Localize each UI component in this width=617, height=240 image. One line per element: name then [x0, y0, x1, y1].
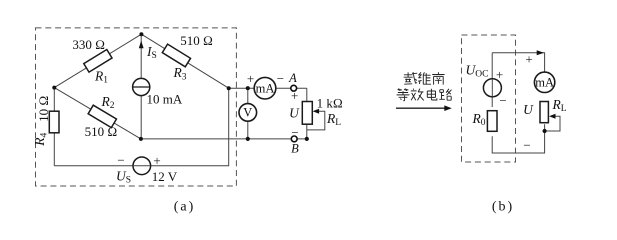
glyph deng: [397, 89, 410, 101]
node RL wiper junction (b): [543, 129, 547, 133]
svg-text:−: −: [117, 153, 124, 168]
svg-text:+: +: [496, 67, 503, 82]
glyph lu: [439, 89, 451, 100]
svg-text:10 mA: 10 mA: [147, 92, 183, 107]
wire R to A rail: [229, 87, 307, 89]
node J2: [246, 137, 250, 141]
svg-text:V: V: [243, 106, 252, 120]
svg-text:1 kΩ: 1 kΩ: [317, 96, 343, 111]
resistor R0: [487, 111, 497, 132]
node L: [52, 86, 56, 90]
resistor R3: [162, 44, 190, 67]
node T: [139, 32, 143, 36]
svg-text:+: +: [525, 52, 532, 67]
svg-text:−: −: [291, 125, 298, 140]
dashed box (a): [36, 28, 237, 186]
resistor R1: [84, 49, 112, 72]
current arrow (b): [537, 50, 544, 55]
wire voltmeter branch: [247, 88, 249, 139]
svg-text:B: B: [291, 142, 299, 156]
resistor RL (b): [540, 102, 548, 123]
svg-text:U: U: [289, 106, 300, 121]
wire (b) left branch: [491, 53, 493, 107]
svg-text:−: −: [277, 71, 284, 86]
svg-text:+: +: [153, 153, 160, 168]
glyph dian: [427, 89, 437, 100]
svg-text:12 V: 12 V: [152, 169, 178, 184]
node M: [139, 137, 143, 141]
ammeter mA (a): [254, 77, 276, 99]
resistor R2: [88, 105, 116, 127]
svg-text:(b): (b): [492, 200, 514, 215]
glyph wei: [418, 72, 431, 84]
wire M to B rail: [141, 138, 307, 140]
svg-text:mA: mA: [256, 82, 275, 96]
equivalence arrow: [396, 107, 446, 109]
svg-text:(a): (a): [174, 200, 196, 215]
resistor RL (a): [302, 102, 312, 125]
svg-text:510 Ω: 510 Ω: [180, 33, 213, 48]
wire L-T: [54, 34, 141, 87]
wire (b) bottom rail: [492, 124, 544, 153]
terminal A: [291, 85, 297, 91]
svg-text:+: +: [247, 71, 254, 86]
voltage source UOC: [483, 79, 501, 97]
resistor R4: [49, 111, 59, 133]
svg-text:+: +: [291, 88, 298, 103]
svg-text:mA: mA: [535, 76, 554, 90]
wire T-M (current source branch): [140, 34, 142, 139]
glyph nan: [432, 72, 444, 84]
voltmeter V: [239, 104, 257, 122]
node R: [227, 86, 231, 90]
wire bottom rail with US: [54, 88, 228, 166]
chinese text daiweinan (drawn glyphs): [404, 72, 445, 85]
wiper arm RL (b): [545, 116, 560, 131]
svg-text:10 Ω: 10 Ω: [36, 96, 51, 122]
IS arrow: [139, 41, 144, 49]
svg-text:A: A: [288, 71, 297, 85]
svg-text:510 Ω: 510 Ω: [85, 124, 118, 139]
svg-text:−: −: [499, 93, 506, 108]
glyph dai: [404, 72, 418, 84]
dashed box (b): [462, 35, 516, 162]
svg-text:U: U: [523, 102, 534, 117]
wire RL leads: [306, 88, 308, 139]
wiper arm RL (a): [307, 111, 325, 130]
wire (b) top rail: [492, 53, 544, 72]
wire L down left side: [53, 88, 55, 166]
voltage source US: [133, 157, 151, 175]
chinese text dengxiaodianlu (drawn glyphs): [397, 89, 452, 101]
wire L-M: [54, 88, 141, 139]
terminal B: [291, 136, 297, 142]
glyph xiao: [411, 89, 424, 101]
ammeter mA (b): [534, 72, 554, 92]
current source IS: [133, 78, 150, 95]
svg-text:−: −: [523, 138, 530, 153]
node J1: [246, 86, 250, 90]
node RL bottom: [305, 137, 309, 141]
svg-text:330 Ω: 330 Ω: [72, 37, 105, 52]
wire T-R: [141, 34, 228, 88]
